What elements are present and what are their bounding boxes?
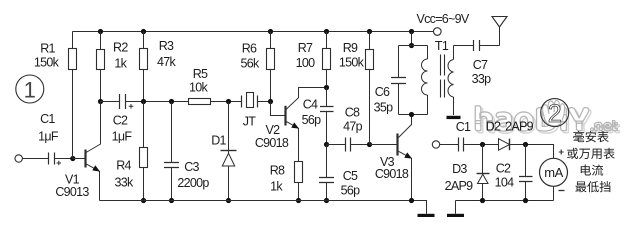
node V3 emitter ground bbox=[409, 198, 414, 203]
node V2 collector bbox=[324, 85, 329, 90]
meter mA bbox=[540, 158, 568, 186]
svg-text:56p: 56p bbox=[341, 184, 361, 198]
capacitor C2 1uF bbox=[120, 94, 126, 109]
resistor R8 bbox=[295, 162, 303, 183]
svg-text:C5: C5 bbox=[343, 169, 358, 183]
diode D2 2AP9 bbox=[499, 139, 510, 151]
mid bus wire bbox=[101, 101, 242, 103]
svg-text:R8: R8 bbox=[270, 164, 285, 178]
svg-text:56p: 56p bbox=[302, 113, 322, 127]
ground T1 secondary bbox=[447, 116, 461, 119]
svg-text:V1: V1 bbox=[65, 172, 80, 186]
svg-text:D2: D2 bbox=[486, 119, 501, 133]
capacitor C7 33p bbox=[474, 40, 480, 51]
capacitor C3 2200p bbox=[169, 99, 174, 104]
note: milliammeter label line 4 最低挡 bbox=[575, 181, 586, 192]
svg-text:C1: C1 bbox=[40, 112, 55, 126]
svg-text:2AP9: 2AP9 bbox=[505, 119, 534, 133]
resistor R3 bbox=[141, 29, 146, 34]
ground symbol meter bbox=[447, 214, 464, 217]
transistor V1 C9013 bbox=[73, 158, 85, 160]
svg-text:R1: R1 bbox=[40, 41, 55, 55]
ground symbol main bbox=[418, 214, 435, 217]
capacitor C6 35p bbox=[398, 46, 400, 115]
svg-text:V2: V2 bbox=[266, 123, 281, 137]
note: milliammeter label line 1 毫安表 bbox=[573, 131, 584, 142]
svg-text:JT: JT bbox=[243, 114, 257, 128]
svg-text:C2: C2 bbox=[113, 113, 128, 127]
node C2 meter top bbox=[523, 142, 528, 147]
capacitor C2 104 bbox=[525, 145, 527, 201]
svg-text:D3: D3 bbox=[452, 162, 467, 176]
wire secondary to C7 bbox=[454, 45, 474, 47]
tank circuit feed bbox=[409, 29, 414, 34]
meter bottom rail bbox=[456, 201, 554, 214]
svg-text:47k: 47k bbox=[157, 55, 177, 69]
svg-text:1μF: 1μF bbox=[112, 130, 133, 144]
resistor R9 bbox=[367, 29, 372, 34]
node R3 bus bbox=[141, 99, 146, 104]
node D1 ground bbox=[226, 198, 231, 203]
node C3 ground bbox=[169, 198, 174, 203]
diode D3 2AP9 bbox=[482, 145, 484, 201]
svg-text:47p: 47p bbox=[343, 120, 363, 134]
svg-text:R7: R7 bbox=[298, 41, 313, 55]
svg-text:R6: R6 bbox=[242, 42, 257, 56]
svg-text:1μF: 1μF bbox=[38, 130, 59, 144]
ground rail bbox=[100, 201, 427, 214]
svg-text:D1: D1 bbox=[211, 133, 226, 147]
resistor R6 bbox=[268, 29, 273, 34]
top power rail bbox=[73, 31, 434, 33]
antenna bbox=[499, 27, 501, 46]
resistor R2 bbox=[98, 29, 103, 34]
svg-text:C3: C3 bbox=[184, 160, 199, 174]
node C8 junction bbox=[324, 142, 329, 147]
svg-text:R3: R3 bbox=[159, 39, 174, 53]
wire C1 to base node bbox=[55, 158, 73, 160]
capacitor C8 47p bbox=[327, 144, 370, 146]
wire to C1 meter bbox=[440, 144, 459, 146]
node C5 ground bbox=[324, 198, 329, 203]
node D3 top bbox=[480, 142, 485, 147]
svg-text:56k: 56k bbox=[240, 57, 260, 71]
svg-text:C7: C7 bbox=[473, 58, 488, 72]
capacitor C1 (input 1uF) bbox=[49, 153, 55, 165]
transformer T1 primary bbox=[427, 46, 429, 60]
transistor V3 C9018 bbox=[370, 144, 397, 146]
diode D1 bbox=[226, 99, 231, 104]
node R8 ground bbox=[296, 198, 301, 203]
svg-text:R4: R4 bbox=[116, 159, 131, 173]
node C8/R9 bbox=[367, 142, 372, 147]
capacitor C1 meter bbox=[459, 138, 464, 152]
svg-text:35p: 35p bbox=[374, 100, 394, 114]
logo hand in node 2 bbox=[543, 101, 565, 126]
svg-text:R5: R5 bbox=[193, 67, 208, 81]
node base V1 bbox=[70, 156, 75, 161]
svg-text:2AP9: 2AP9 bbox=[445, 179, 474, 193]
svg-text:C9013: C9013 bbox=[55, 185, 89, 199]
note: milliammeter label line 3 电流 bbox=[581, 164, 591, 175]
svg-text:2200p: 2200p bbox=[177, 176, 209, 190]
svg-text:mA: mA bbox=[544, 165, 563, 180]
svg-text:150k: 150k bbox=[339, 56, 365, 70]
svg-text:10k: 10k bbox=[189, 80, 209, 94]
svg-text:C1: C1 bbox=[456, 120, 471, 134]
svg-text:C8: C8 bbox=[345, 105, 360, 119]
svg-text:C9018: C9018 bbox=[375, 167, 409, 181]
capacitor C5 56p bbox=[326, 145, 328, 201]
node 1 marker circle bbox=[16, 75, 44, 103]
wire D2 to meter bbox=[510, 145, 554, 159]
svg-text:104: 104 bbox=[495, 176, 515, 190]
resistor R1 bbox=[72, 32, 74, 159]
transformer T1 secondary bbox=[453, 46, 455, 60]
input terminal bbox=[15, 155, 22, 162]
node 2 terminal bbox=[432, 141, 439, 148]
svg-text:R2: R2 bbox=[113, 41, 128, 55]
svg-text:150k: 150k bbox=[34, 55, 60, 69]
svg-text:33p: 33p bbox=[472, 72, 492, 86]
svg-text:Vcc=6~9V: Vcc=6~9V bbox=[416, 12, 469, 26]
node R2/collector bbox=[98, 99, 103, 104]
node R6 base V2 bbox=[268, 99, 273, 104]
svg-text:1k: 1k bbox=[270, 180, 283, 194]
node 2 marker circle bbox=[541, 99, 569, 127]
transformer T1 core bbox=[441, 55, 445, 98]
svg-text:1: 1 bbox=[24, 78, 36, 103]
svg-text:C4: C4 bbox=[303, 97, 318, 111]
meter minus bbox=[559, 190, 565, 192]
crystal JT bbox=[242, 96, 258, 108]
svg-text:C6: C6 bbox=[375, 85, 390, 99]
svg-text:C2: C2 bbox=[496, 161, 511, 175]
svg-text:T1: T1 bbox=[435, 39, 449, 53]
transistor V2 C9018 bbox=[271, 102, 285, 116]
capacitor C4 56p bbox=[326, 88, 328, 145]
svg-text:C9018: C9018 bbox=[255, 136, 289, 150]
resistor R4 bbox=[143, 102, 145, 201]
wire input to C1 bbox=[22, 158, 48, 160]
watermark haoDIY.net bbox=[477, 108, 494, 133]
resistor R5 bbox=[189, 99, 211, 105]
svg-text:1k: 1k bbox=[114, 56, 127, 70]
node R4 ground bbox=[141, 198, 146, 203]
meter plus bbox=[559, 150, 564, 155]
Vcc terminal bbox=[434, 28, 442, 36]
wire C1 to D2 bbox=[464, 144, 499, 146]
note: milliammeter label line 2 或万用表 bbox=[567, 148, 578, 159]
svg-text:33k: 33k bbox=[114, 175, 134, 189]
svg-text:2: 2 bbox=[548, 100, 562, 128]
svg-text:100: 100 bbox=[296, 56, 316, 70]
svg-text:R9: R9 bbox=[343, 41, 358, 55]
resistor R7 bbox=[324, 29, 329, 34]
